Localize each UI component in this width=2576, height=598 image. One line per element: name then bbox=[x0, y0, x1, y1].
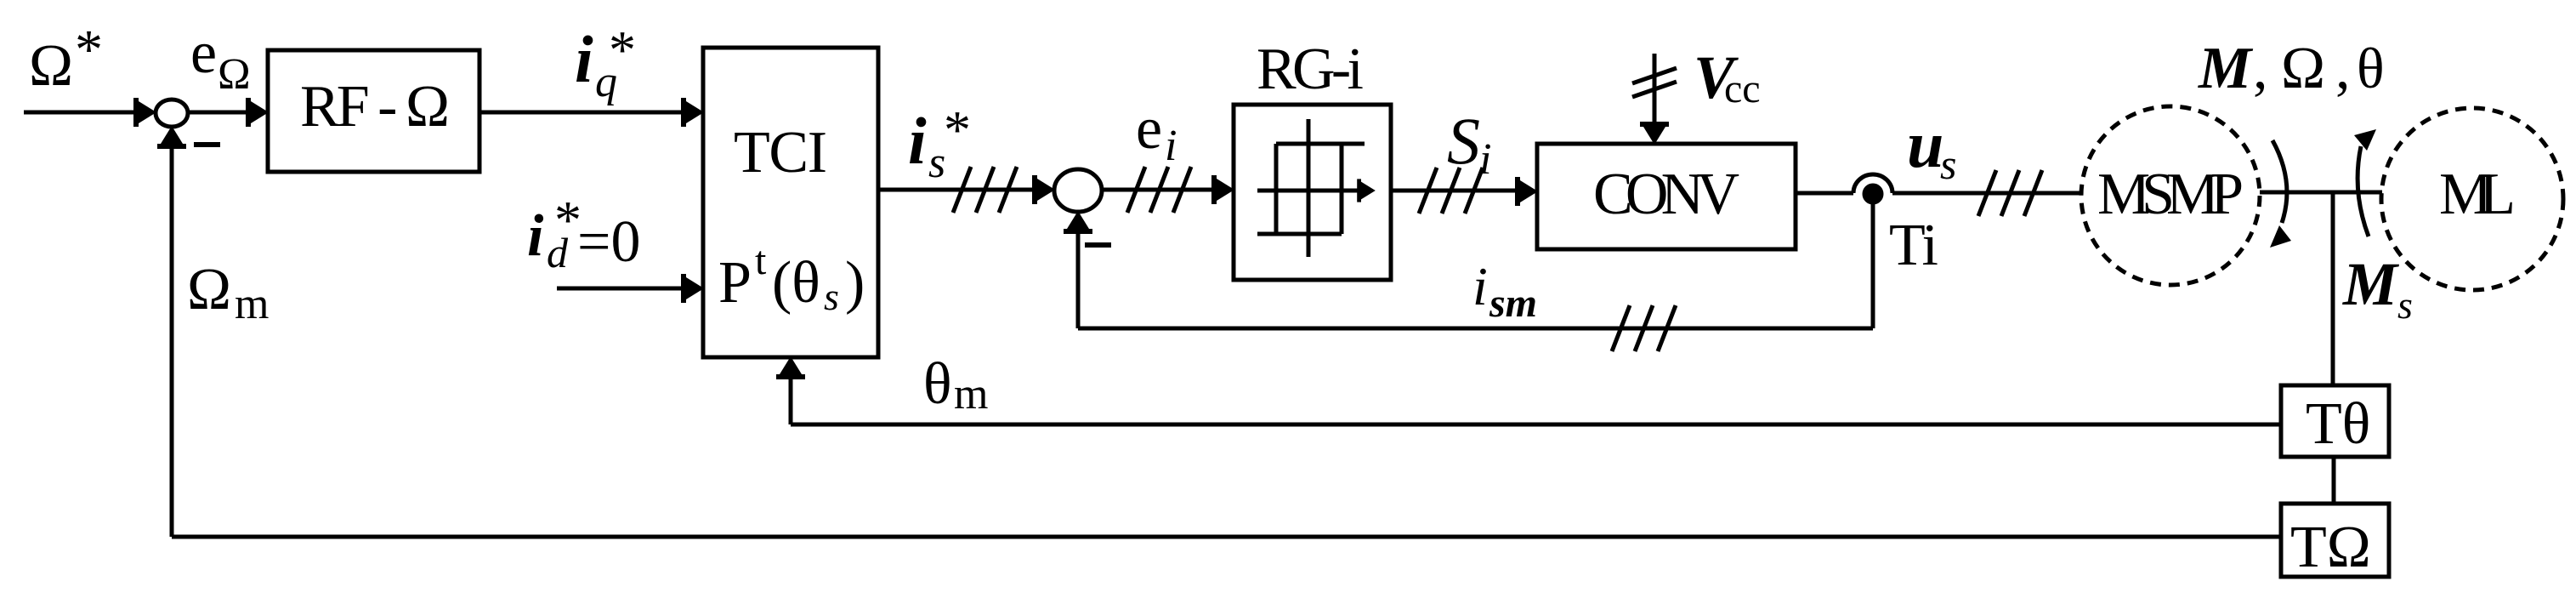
svg-text:Ω: Ω bbox=[218, 50, 251, 99]
svg-text:TCI: TCI bbox=[734, 120, 827, 185]
svg-text:m: m bbox=[235, 280, 269, 328]
svg-text:Ω: Ω bbox=[2281, 36, 2325, 101]
svg-text:TΩ: TΩ bbox=[2290, 515, 2371, 580]
svg-text:cc: cc bbox=[1724, 66, 1761, 111]
svg-text:m: m bbox=[954, 370, 988, 419]
svg-text:s: s bbox=[2397, 283, 2413, 327]
svg-text:i: i bbox=[1472, 256, 1488, 316]
svg-text:u: u bbox=[1907, 107, 1943, 181]
svg-text:i: i bbox=[575, 22, 593, 96]
svg-text:ML: ML bbox=[2439, 162, 2516, 227]
svg-text:(θ: (θ bbox=[772, 250, 820, 316]
svg-text:P: P bbox=[718, 250, 752, 316]
svg-text:s: s bbox=[824, 275, 839, 318]
svg-text:RG-i: RG-i bbox=[1257, 37, 1364, 102]
svg-text:e: e bbox=[1136, 96, 1162, 162]
svg-text:,: , bbox=[2335, 36, 2351, 101]
svg-text:θ: θ bbox=[923, 351, 952, 417]
svg-text:Ω: Ω bbox=[29, 33, 73, 99]
svg-text:M: M bbox=[2198, 36, 2254, 101]
svg-text:Ω: Ω bbox=[187, 257, 231, 322]
svg-text:i: i bbox=[1479, 135, 1491, 184]
svg-text:*: * bbox=[75, 19, 103, 81]
svg-text:t: t bbox=[755, 238, 767, 283]
svg-text:i: i bbox=[908, 104, 927, 178]
svg-text:θ: θ bbox=[2357, 36, 2385, 100]
svg-text:*: * bbox=[944, 100, 971, 160]
svg-text:): ) bbox=[845, 250, 865, 316]
svg-text:*: * bbox=[609, 20, 636, 80]
svg-text:i: i bbox=[527, 203, 544, 269]
svg-text:=0: =0 bbox=[577, 209, 640, 275]
svg-text:e: e bbox=[190, 20, 217, 86]
svg-text:Ti: Ti bbox=[1889, 213, 1938, 278]
svg-text:MSMP: MSMP bbox=[2097, 162, 2244, 227]
svg-text:M: M bbox=[2342, 250, 2400, 318]
svg-text:,: , bbox=[2253, 36, 2268, 101]
svg-text:CONV: CONV bbox=[1593, 162, 1739, 227]
svg-text:S: S bbox=[1447, 104, 1480, 178]
svg-text:i: i bbox=[1165, 122, 1177, 170]
svg-text:RF - Ω: RF - Ω bbox=[300, 74, 450, 140]
svg-text:Tθ: Tθ bbox=[2306, 391, 2370, 457]
svg-text:sm: sm bbox=[1489, 281, 1537, 326]
svg-text:s: s bbox=[1940, 140, 1956, 188]
